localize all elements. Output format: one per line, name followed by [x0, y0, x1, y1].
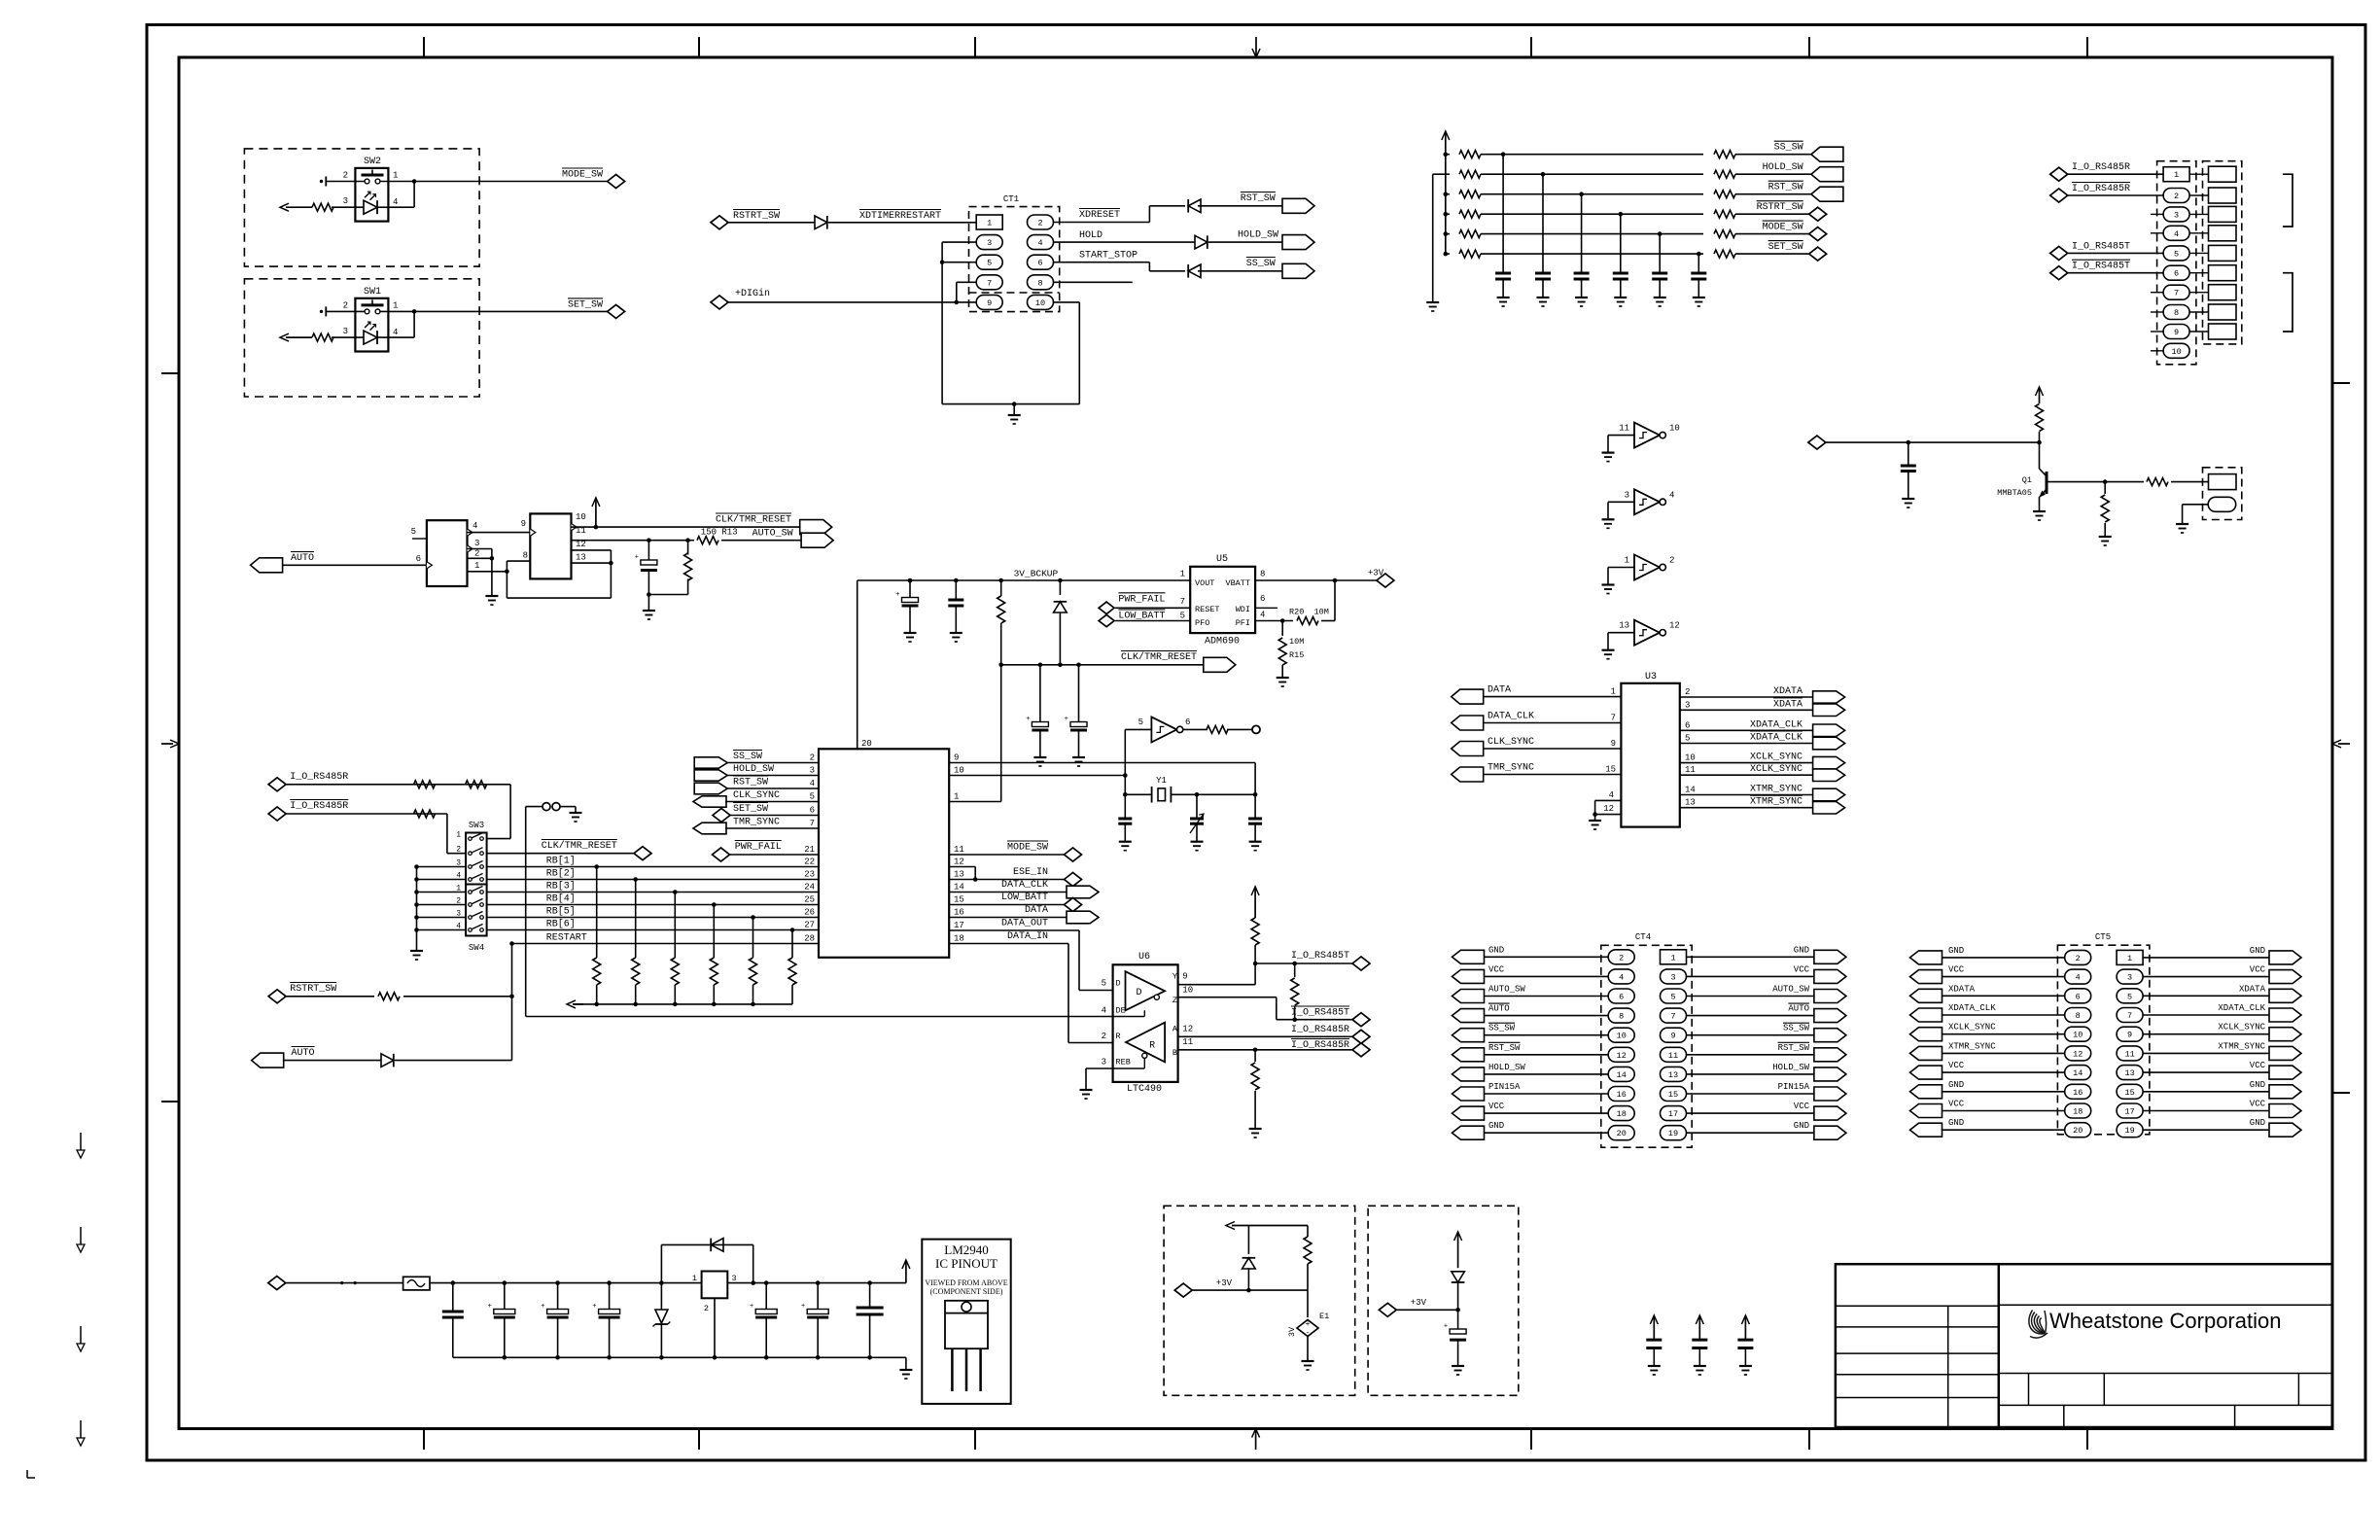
- svg-text:2: 2: [343, 300, 348, 310]
- svg-text:XTMR_SYNC: XTMR_SYNC: [1750, 785, 1802, 795]
- svg-text:U3: U3: [1645, 672, 1657, 682]
- svg-text:3V_BCKUP: 3V_BCKUP: [1014, 568, 1059, 578]
- svg-text:MODE_SW: MODE_SW: [1007, 843, 1048, 854]
- svg-text:+: +: [801, 1303, 805, 1311]
- svg-text:3: 3: [1685, 700, 1690, 710]
- svg-text:(COMPONENT SIDE): (COMPONENT SIDE): [930, 1287, 1003, 1296]
- svg-text:13: 13: [1619, 621, 1629, 631]
- svg-text:VCC: VCC: [1948, 1061, 1965, 1070]
- svg-text:SS_SW: SS_SW: [733, 752, 762, 762]
- svg-text:AUTO: AUTO: [292, 1048, 315, 1059]
- svg-text:4: 4: [2174, 229, 2179, 239]
- svg-text:RST_SW: RST_SW: [1778, 1043, 1810, 1053]
- svg-text:13: 13: [1668, 1070, 1678, 1080]
- svg-text:2: 2: [1619, 953, 1624, 962]
- svg-text:12: 12: [954, 857, 964, 867]
- svg-text:2: 2: [1669, 556, 1674, 566]
- svg-text:3: 3: [474, 539, 479, 548]
- svg-text:2: 2: [474, 549, 479, 559]
- svg-text:VCC: VCC: [2250, 965, 2266, 975]
- svg-text:RSTRT_SW: RSTRT_SW: [290, 984, 336, 995]
- svg-text:2: 2: [2174, 192, 2179, 201]
- svg-text:12: 12: [1617, 1051, 1627, 1061]
- svg-text:AUTO: AUTO: [1788, 1004, 1809, 1014]
- svg-text:I_O_RS485R: I_O_RS485R: [2072, 184, 2130, 194]
- svg-text:WDI: WDI: [1236, 605, 1250, 614]
- svg-text:16: 16: [2073, 1088, 2082, 1098]
- svg-text:+: +: [1306, 1320, 1311, 1329]
- svg-text:CLK/TMR_RESET: CLK/TMR_RESET: [542, 840, 617, 852]
- svg-text:17: 17: [1668, 1109, 1678, 1119]
- svg-text:GND: GND: [1948, 1118, 1964, 1128]
- svg-text:HOLD_SW: HOLD_SW: [1763, 162, 1803, 173]
- svg-text:2: 2: [456, 846, 461, 855]
- svg-text:HOLD_SW: HOLD_SW: [1772, 1063, 1809, 1072]
- svg-text:2: 2: [1685, 687, 1690, 697]
- svg-text:10: 10: [1669, 424, 1680, 434]
- svg-text:DATA_IN: DATA_IN: [1007, 931, 1048, 942]
- svg-text:4: 4: [810, 779, 815, 788]
- svg-text:20: 20: [2073, 1126, 2082, 1136]
- svg-text:7: 7: [1180, 597, 1185, 607]
- svg-text:28: 28: [804, 934, 815, 944]
- svg-text:RB[6]: RB[6]: [546, 919, 576, 930]
- svg-text:11: 11: [2124, 1049, 2134, 1059]
- svg-text:DATA: DATA: [1487, 685, 1511, 696]
- svg-text:HOLD_SW: HOLD_SW: [1488, 1063, 1525, 1072]
- svg-text:1: 1: [1611, 687, 1616, 697]
- svg-text:+: +: [1026, 716, 1030, 723]
- svg-text:B: B: [1172, 1048, 1177, 1058]
- svg-text:+: +: [541, 1303, 544, 1311]
- svg-text:1: 1: [692, 1274, 697, 1283]
- svg-text:SW2: SW2: [364, 157, 381, 167]
- svg-text:18: 18: [954, 934, 964, 944]
- svg-text:VOUT: VOUT: [1195, 578, 1214, 588]
- svg-text:7: 7: [1611, 714, 1616, 723]
- svg-text:DATA: DATA: [1025, 905, 1048, 916]
- svg-text:2: 2: [1102, 1032, 1106, 1041]
- svg-text:16: 16: [1617, 1090, 1627, 1100]
- svg-text:20: 20: [861, 739, 872, 749]
- svg-text:7: 7: [987, 278, 992, 288]
- svg-text:SW4: SW4: [469, 943, 484, 953]
- svg-text:GND: GND: [2250, 1080, 2265, 1090]
- svg-text:21: 21: [804, 845, 815, 855]
- svg-text:6: 6: [1619, 993, 1624, 1002]
- svg-text:23: 23: [804, 870, 815, 880]
- svg-text:I_O_RS485R: I_O_RS485R: [290, 801, 348, 812]
- svg-text:3V: 3V: [1287, 1326, 1297, 1337]
- svg-text:9: 9: [1670, 1032, 1675, 1041]
- svg-text:VCC: VCC: [1488, 1102, 1505, 1111]
- svg-text:3: 3: [2127, 973, 2132, 983]
- svg-text:XDRESET: XDRESET: [1079, 210, 1120, 221]
- svg-text:20: 20: [1617, 1129, 1627, 1138]
- svg-text:4: 4: [1037, 238, 1042, 248]
- svg-text:1: 1: [2174, 170, 2179, 180]
- svg-text:I_O_RS485R: I_O_RS485R: [1291, 1025, 1349, 1035]
- svg-text:RB[5]: RB[5]: [546, 906, 576, 918]
- svg-text:13: 13: [954, 870, 964, 880]
- svg-text:5: 5: [987, 259, 992, 268]
- svg-text:ESE_IN: ESE_IN: [1013, 867, 1048, 878]
- svg-text:XCLK_SYNC: XCLK_SYNC: [2218, 1023, 2265, 1032]
- svg-text:MODE_SW: MODE_SW: [1763, 223, 1803, 233]
- svg-text:+: +: [750, 1303, 753, 1311]
- svg-text:17: 17: [954, 921, 964, 930]
- svg-text:RST_SW: RST_SW: [1768, 183, 1803, 193]
- svg-text:I_O_RS485T: I_O_RS485T: [1291, 1008, 1349, 1019]
- svg-text:4: 4: [1609, 790, 1614, 800]
- svg-text:+: +: [488, 1303, 492, 1311]
- svg-text:10: 10: [576, 512, 586, 522]
- svg-text:4: 4: [393, 328, 398, 337]
- svg-text:ADM690: ADM690: [1205, 637, 1240, 647]
- svg-text:14: 14: [2073, 1068, 2082, 1078]
- svg-text:18: 18: [2073, 1107, 2082, 1117]
- svg-text:CT4: CT4: [1635, 932, 1651, 942]
- svg-text:PWR_FAIL: PWR_FAIL: [1118, 594, 1165, 605]
- svg-text:25: 25: [804, 895, 815, 905]
- svg-text:+3V: +3V: [1411, 1298, 1427, 1308]
- svg-text:12: 12: [1603, 804, 1614, 814]
- svg-text:27: 27: [804, 921, 815, 930]
- svg-text:8: 8: [2174, 308, 2179, 318]
- svg-text:8: 8: [1260, 570, 1265, 579]
- svg-text:9: 9: [2174, 328, 2179, 337]
- svg-text:10M: 10M: [1289, 637, 1304, 647]
- svg-text:6: 6: [810, 806, 815, 816]
- svg-text:D: D: [1116, 978, 1121, 988]
- svg-text:1: 1: [1625, 556, 1629, 566]
- svg-text:19: 19: [2124, 1126, 2134, 1136]
- svg-text:XTMR_SYNC: XTMR_SYNC: [2218, 1041, 2265, 1051]
- svg-text:SET_SW: SET_SW: [1768, 242, 1803, 253]
- svg-text:RSTRT_SW: RSTRT_SW: [1757, 202, 1803, 213]
- svg-text:15: 15: [1605, 765, 1616, 775]
- svg-text:11: 11: [954, 845, 964, 855]
- svg-text:I_O_RS485T: I_O_RS485T: [1291, 951, 1349, 962]
- svg-text:15: 15: [2124, 1088, 2134, 1098]
- svg-text:2: 2: [1037, 219, 1042, 228]
- svg-text:10: 10: [954, 766, 964, 776]
- svg-text:1: 1: [987, 219, 992, 228]
- svg-text:10: 10: [1182, 986, 1193, 996]
- svg-text:SS_SW: SS_SW: [1488, 1024, 1516, 1033]
- svg-text:5: 5: [2174, 249, 2179, 259]
- svg-text:5: 5: [810, 792, 815, 802]
- svg-text:GND: GND: [1488, 1121, 1504, 1131]
- svg-text:I_O_RS485R: I_O_RS485R: [290, 772, 348, 783]
- svg-text:5: 5: [1670, 993, 1675, 1002]
- svg-text:SW3: SW3: [469, 821, 484, 830]
- svg-text:10: 10: [1685, 753, 1696, 763]
- svg-text:SS_SW: SS_SW: [1774, 143, 1803, 154]
- svg-text:U6: U6: [1138, 952, 1150, 962]
- svg-text:+: +: [592, 1303, 596, 1311]
- svg-text:5: 5: [1685, 734, 1690, 744]
- svg-text:R20 10M: R20 10M: [1289, 608, 1329, 617]
- svg-text:RB[1]: RB[1]: [546, 856, 576, 867]
- svg-text:XTMR_SYNC: XTMR_SYNC: [1948, 1041, 1996, 1051]
- svg-text:LTC490: LTC490: [1127, 1084, 1162, 1095]
- svg-text:SS_SW: SS_SW: [1246, 259, 1276, 269]
- svg-text:GND: GND: [1948, 946, 1964, 956]
- svg-text:VIEWED FROM ABOVE: VIEWED FROM ABOVE: [925, 1278, 1007, 1287]
- svg-text:5: 5: [2127, 992, 2132, 1001]
- svg-text:8: 8: [523, 551, 528, 561]
- svg-text:14: 14: [1685, 786, 1696, 795]
- svg-text:I_O_RS485R: I_O_RS485R: [2072, 162, 2130, 173]
- svg-text:RB[2]: RB[2]: [546, 868, 576, 880]
- svg-text:+: +: [635, 554, 639, 562]
- svg-text:AUTO_SW: AUTO_SW: [752, 529, 793, 540]
- svg-text:5: 5: [1138, 717, 1143, 727]
- svg-text:3: 3: [343, 196, 348, 206]
- svg-text:RB[4]: RB[4]: [546, 893, 576, 905]
- svg-text:5: 5: [1180, 612, 1185, 621]
- svg-text:REB: REB: [1116, 1057, 1131, 1067]
- svg-text:GND: GND: [2250, 1118, 2265, 1128]
- svg-text:+: +: [1444, 1323, 1448, 1331]
- svg-text:15: 15: [954, 895, 964, 905]
- svg-text:RESET: RESET: [1195, 605, 1220, 614]
- svg-text:Z: Z: [1172, 996, 1177, 1005]
- svg-text:13: 13: [576, 553, 586, 563]
- svg-text:GND: GND: [1794, 1121, 1809, 1131]
- svg-text:PIN15A: PIN15A: [1488, 1082, 1521, 1092]
- svg-text:TMR_SYNC: TMR_SYNC: [733, 818, 780, 828]
- svg-text:VCC: VCC: [1948, 1100, 1965, 1109]
- svg-text:9: 9: [987, 298, 992, 308]
- svg-text:XDATA: XDATA: [2239, 984, 2266, 994]
- svg-text:8: 8: [2076, 1011, 2081, 1021]
- svg-text:+3V: +3V: [1216, 1278, 1233, 1288]
- svg-text:4: 4: [472, 521, 477, 531]
- svg-text:14: 14: [954, 883, 964, 892]
- svg-text:9: 9: [1182, 972, 1187, 982]
- svg-text:VCC: VCC: [1794, 964, 1810, 974]
- svg-text:I_O_RS485T: I_O_RS485T: [2072, 241, 2130, 252]
- svg-text:XTMR_SYNC: XTMR_SYNC: [1750, 797, 1802, 808]
- svg-text:1: 1: [393, 171, 398, 181]
- svg-text:3: 3: [2174, 210, 2179, 220]
- svg-text:6: 6: [1260, 594, 1265, 604]
- svg-text:SW1: SW1: [364, 287, 381, 297]
- svg-text:VBATT: VBATT: [1225, 578, 1250, 588]
- svg-text:6: 6: [416, 554, 421, 564]
- svg-text:XDATA_CLK: XDATA_CLK: [1948, 1003, 1996, 1013]
- svg-text:1: 1: [393, 300, 398, 310]
- svg-text:4: 4: [2076, 973, 2081, 983]
- svg-text:15: 15: [1668, 1090, 1678, 1100]
- svg-text:18: 18: [1617, 1109, 1627, 1119]
- svg-text:+: +: [1065, 716, 1068, 723]
- svg-text:SET_SW: SET_SW: [568, 299, 603, 310]
- svg-text:2: 2: [343, 171, 348, 181]
- svg-text:12: 12: [2073, 1049, 2082, 1059]
- svg-text:AUTO: AUTO: [291, 553, 314, 564]
- svg-text:START_STOP: START_STOP: [1079, 251, 1137, 262]
- svg-text:24: 24: [804, 883, 815, 892]
- svg-text:10: 10: [2171, 347, 2181, 357]
- svg-text:+: +: [895, 591, 899, 599]
- svg-text:3: 3: [987, 238, 992, 248]
- svg-text:3: 3: [1102, 1057, 1106, 1067]
- svg-text:1: 1: [2127, 954, 2132, 963]
- svg-text:RESTART: RESTART: [546, 933, 587, 944]
- svg-text:PIN15A: PIN15A: [1778, 1082, 1810, 1092]
- svg-text:VCC: VCC: [1488, 964, 1505, 974]
- svg-text:XDATA_CLK: XDATA_CLK: [1750, 733, 1802, 744]
- svg-text:5: 5: [1102, 978, 1106, 988]
- svg-text:R: R: [1116, 1032, 1121, 1041]
- svg-text:CT5: CT5: [2095, 932, 2111, 942]
- svg-text:AUTO_SW: AUTO_SW: [1488, 985, 1525, 995]
- svg-text:13: 13: [1685, 798, 1696, 808]
- svg-text:CT1: CT1: [1003, 194, 1019, 204]
- svg-text:3: 3: [1670, 972, 1675, 982]
- svg-text:GND: GND: [2250, 946, 2265, 956]
- svg-text:7: 7: [2174, 289, 2179, 298]
- svg-text:CLK/TMR_RESET: CLK/TMR_RESET: [1121, 651, 1197, 663]
- svg-text:1: 1: [1180, 570, 1185, 579]
- svg-text:+3V: +3V: [1368, 568, 1384, 577]
- svg-text:VCC: VCC: [2250, 1061, 2266, 1070]
- svg-text:8: 8: [1037, 278, 1042, 288]
- svg-text:RST_SW: RST_SW: [1488, 1043, 1521, 1053]
- svg-text:CLK/TMR_RESET: CLK/TMR_RESET: [716, 514, 791, 526]
- svg-text:XDATA: XDATA: [1773, 699, 1802, 710]
- svg-text:A: A: [1172, 1025, 1178, 1034]
- svg-text:Y1: Y1: [1156, 776, 1167, 786]
- svg-text:VCC: VCC: [2250, 1100, 2266, 1109]
- svg-text:13: 13: [2124, 1068, 2134, 1078]
- svg-text:D: D: [1137, 988, 1142, 998]
- svg-text:11: 11: [1619, 424, 1629, 434]
- svg-text:19: 19: [1668, 1129, 1678, 1138]
- svg-text:XCLK_SYNC: XCLK_SYNC: [1750, 764, 1802, 775]
- svg-text:1: 1: [954, 792, 959, 802]
- svg-text:HOLD: HOLD: [1079, 230, 1102, 241]
- svg-text:SET_SW: SET_SW: [733, 804, 768, 815]
- svg-text:+DIGin: +DIGin: [735, 288, 770, 299]
- svg-text:7: 7: [810, 819, 815, 828]
- svg-text:10: 10: [1617, 1032, 1627, 1041]
- svg-text:XCLK_SYNC: XCLK_SYNC: [1750, 752, 1802, 763]
- svg-text:6: 6: [2076, 992, 2081, 1001]
- svg-text:I_O_RS485R: I_O_RS485R: [1291, 1040, 1349, 1051]
- svg-text:10: 10: [2073, 1031, 2082, 1040]
- svg-text:12: 12: [1182, 1025, 1193, 1034]
- svg-text:11: 11: [1668, 1051, 1678, 1061]
- svg-text:4: 4: [1669, 490, 1674, 500]
- svg-text:HOLD_SW: HOLD_SW: [1238, 230, 1278, 241]
- svg-text:6: 6: [1685, 720, 1690, 730]
- svg-text:9: 9: [1611, 739, 1616, 749]
- svg-text:RB[3]: RB[3]: [546, 881, 576, 892]
- svg-text:VCC: VCC: [1794, 1102, 1810, 1111]
- svg-text:2: 2: [810, 753, 815, 763]
- svg-text:DATA_CLK: DATA_CLK: [1001, 880, 1048, 891]
- svg-text:6: 6: [2174, 269, 2179, 279]
- svg-text:4: 4: [1102, 1005, 1106, 1015]
- svg-text:1: 1: [474, 561, 479, 571]
- svg-text:GND: GND: [1794, 945, 1809, 955]
- svg-text:XDATA: XDATA: [1948, 984, 1976, 994]
- svg-text:10: 10: [1035, 298, 1045, 308]
- svg-text:PWR_FAIL: PWR_FAIL: [735, 842, 782, 853]
- svg-text:CLK_SYNC: CLK_SYNC: [733, 790, 780, 801]
- svg-text:Y: Y: [1172, 972, 1177, 982]
- svg-text:14: 14: [1617, 1070, 1627, 1080]
- svg-text:9: 9: [954, 753, 959, 763]
- svg-text:GND: GND: [1948, 1080, 1964, 1090]
- svg-text:TMR_SYNC: TMR_SYNC: [1487, 763, 1534, 774]
- svg-text:Q1: Q1: [2022, 475, 2032, 485]
- svg-text:PFO: PFO: [1195, 618, 1209, 628]
- svg-text:IC PINOUT: IC PINOUT: [935, 1256, 997, 1271]
- svg-text:26: 26: [804, 908, 815, 918]
- svg-text:11: 11: [1685, 765, 1696, 775]
- svg-text:4: 4: [1619, 972, 1624, 982]
- svg-text:DATA_CLK: DATA_CLK: [1487, 712, 1534, 722]
- svg-text:AUTO_SW: AUTO_SW: [1772, 985, 1809, 995]
- svg-text:3: 3: [732, 1274, 737, 1283]
- svg-text:9: 9: [521, 519, 526, 529]
- svg-text:MMBTA05: MMBTA05: [1997, 488, 2032, 498]
- svg-text:5: 5: [411, 527, 416, 537]
- svg-text:2: 2: [704, 1304, 709, 1313]
- svg-text:U5: U5: [1216, 554, 1228, 565]
- svg-text:2: 2: [2076, 954, 2081, 963]
- svg-text:AUTO: AUTO: [1488, 1004, 1510, 1014]
- svg-text:22: 22: [804, 857, 815, 867]
- svg-text:DE: DE: [1116, 1005, 1126, 1015]
- svg-text:R: R: [1149, 1041, 1155, 1052]
- svg-text:HOLD_SW: HOLD_SW: [733, 764, 774, 775]
- svg-text:XDTIMERRESTART: XDTIMERRESTART: [859, 211, 941, 222]
- svg-text:XDATA_CLK: XDATA_CLK: [1750, 719, 1802, 730]
- svg-text:6: 6: [1185, 717, 1190, 727]
- svg-text:3: 3: [810, 766, 815, 776]
- svg-text:4: 4: [393, 197, 398, 207]
- svg-text:16: 16: [954, 908, 964, 918]
- svg-text:R15: R15: [1289, 650, 1304, 660]
- svg-text:XDATA_CLK: XDATA_CLK: [2218, 1003, 2265, 1013]
- svg-text:Wheatstone Corporation: Wheatstone Corporation: [2049, 1309, 2281, 1333]
- svg-text:DATA_OUT: DATA_OUT: [1001, 919, 1048, 929]
- svg-text:LM2940: LM2940: [944, 1242, 989, 1257]
- svg-text:XCLK_SYNC: XCLK_SYNC: [1948, 1023, 1996, 1032]
- svg-text:MODE_SW: MODE_SW: [562, 170, 603, 181]
- svg-text:E1: E1: [1319, 1312, 1329, 1321]
- svg-text:I_O_RS485T: I_O_RS485T: [2072, 262, 2130, 272]
- svg-text:6: 6: [1037, 259, 1042, 268]
- svg-text:RSTRT_SW: RSTRT_SW: [733, 211, 780, 222]
- svg-text:4: 4: [1260, 611, 1265, 620]
- svg-text:7: 7: [2127, 1011, 2132, 1021]
- svg-text:1: 1: [456, 831, 461, 840]
- svg-text:GND: GND: [1488, 945, 1504, 955]
- svg-text:150 R13: 150 R13: [701, 528, 738, 538]
- svg-text:LOW_BATT: LOW_BATT: [1001, 892, 1048, 903]
- svg-text:CLK_SYNC: CLK_SYNC: [1487, 737, 1534, 748]
- svg-text:1: 1: [1670, 953, 1675, 962]
- svg-text:7: 7: [1670, 1012, 1675, 1022]
- svg-text:PFI: PFI: [1236, 618, 1250, 628]
